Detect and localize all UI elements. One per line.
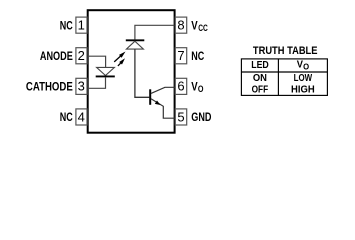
LED D1 triangle [97,67,115,75]
photodiode D2 cathode bar [126,39,145,41]
svg-text:3: 3 [78,79,85,94]
truth table outer box [241,59,327,96]
svg-text:2: 2 [78,48,85,63]
svg-text:NC: NC [60,110,73,124]
svg-text:LED: LED [251,59,269,71]
svg-text:LOW: LOW [294,72,313,84]
svg-text:O: O [198,84,204,95]
transistor Q1 base bar [149,89,151,105]
svg-text:NC: NC [60,18,73,32]
svg-text:OFF: OFF [252,83,269,95]
svg-text:6: 6 [177,79,184,94]
pin 8 box [175,17,186,33]
svg-text:8: 8 [177,18,184,33]
wire LED cathode to pin3 [88,77,106,88]
svg-text:CC: CC [198,23,208,34]
pin 1 box [76,17,87,33]
svg-text:TRUTH TABLE: TRUTH TABLE [253,45,318,57]
truth table header divider [241,71,327,73]
svg-text:GND: GND [191,110,211,124]
svg-text:ANODE: ANODE [40,49,73,63]
svg-text:V: V [191,18,197,32]
transistor Q1 emitter arrowhead [155,101,161,106]
svg-text:V: V [297,58,303,70]
svg-text:5: 5 [177,109,184,124]
svg-text:CATHODE: CATHODE [26,80,73,94]
wire pin2 to LED anode [88,56,106,67]
light arrow lower [118,58,125,66]
IC body U1 [88,10,175,133]
pin 7 box [175,48,186,64]
wire pin8 to photodiode [135,25,174,39]
LED D1 cathode bar [96,75,115,77]
svg-text:O: O [303,62,309,72]
svg-text:7: 7 [177,48,184,63]
svg-text:1: 1 [78,18,85,33]
transistor Q1 collector wire to pin 6 [151,87,175,93]
pin 2 box [76,48,87,64]
photodiode D2 triangle [126,41,143,49]
pin 6 box [175,78,186,94]
pin 5 box [175,109,186,125]
wire photodiode to transistor base [135,49,149,97]
svg-text:4: 4 [78,109,85,124]
pin 4 box [76,109,87,125]
pin 3 box [76,78,87,94]
transistor Q1 emitter wire to pin 5 [151,99,175,119]
truth table column divider [277,59,279,96]
svg-text:HIGH: HIGH [291,83,315,95]
light arrow upper [114,52,125,62]
svg-text:V: V [191,80,197,94]
svg-text:NC: NC [191,49,204,63]
svg-text:ON: ON [253,72,267,84]
